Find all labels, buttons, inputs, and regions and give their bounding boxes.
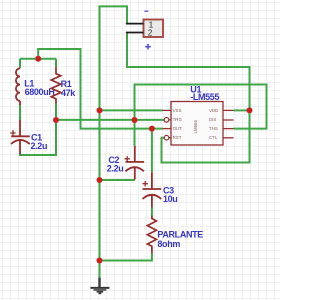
pin stub RST with bubble (164, 135, 171, 140)
resistor PARLANTE (speaker load) (147, 216, 156, 254)
junction R1 bottom (53, 117, 59, 123)
value -LM555 (190, 92, 219, 102)
IC U1 LM555 body (171, 102, 223, 146)
value 10u (163, 194, 177, 204)
value 2.2u (C1) (31, 141, 48, 151)
svg-text:2.2u: 2.2u (31, 141, 48, 151)
svg-text:THS: THS (209, 126, 218, 131)
IC inner label LM555 (vertical) (193, 120, 198, 134)
label U1 (190, 84, 201, 94)
junction OUT / C3 (149, 126, 155, 132)
pin stub VDD (223, 109, 234, 111)
value 6800uH (25, 87, 55, 97)
junction C2 top / TRG (132, 117, 138, 123)
pin name THS (209, 126, 218, 131)
wire connector pin2 to VDD and RST (127, 33, 250, 163)
ground (90, 277, 109, 294)
wire L1 top (19, 59, 21, 69)
wire speaker resistor bottom (100, 254, 152, 261)
svg-text:PARLANTE: PARLANTE (157, 230, 203, 240)
connector J1 (126, 20, 163, 38)
wire top node L1/R1 (20, 58, 56, 60)
svg-text:10u: 10u (163, 194, 177, 204)
svg-text:RST: RST (173, 135, 182, 140)
resistor R1 (51, 67, 60, 104)
wire OUT to C3 (151, 129, 153, 173)
pin name DIS (209, 117, 216, 122)
value 8ohm (157, 239, 180, 249)
polarity minus (145, 10, 149, 12)
pin name CTL (209, 135, 218, 140)
value 2.2u (C2) (107, 164, 124, 174)
svg-text:CTL: CTL (209, 135, 218, 140)
pin stub CTL (223, 137, 234, 139)
svg-text:OUT: OUT (173, 126, 183, 131)
pin stub THS (223, 128, 234, 130)
pin name RST (173, 135, 182, 140)
svg-text:DIS: DIS (209, 117, 216, 122)
wire C2 bottom (100, 179, 135, 181)
svg-text:-LM555: -LM555 (190, 92, 219, 102)
polarity plus (145, 44, 151, 50)
pin name OUT (173, 126, 183, 131)
svg-text:VSS: VSS (173, 108, 182, 113)
pin stub DIS (223, 119, 234, 121)
pin stub TRG with bubble (164, 118, 171, 123)
label PARLANTE (157, 230, 203, 240)
pin stub OUT (163, 128, 172, 130)
value 47k (61, 88, 76, 98)
svg-text:VDD: VDD (209, 108, 218, 113)
label L1 (24, 78, 34, 88)
junction C2 bottom / ground rail (97, 177, 103, 183)
inductor L1 (16, 68, 20, 105)
svg-text:TRG: TRG (173, 117, 183, 122)
pin name VSS (173, 108, 182, 113)
label C3 (163, 185, 174, 195)
svg-text:2: 2 (148, 28, 153, 37)
wire C3 to speaker resistor (151, 208, 153, 216)
label C1 (31, 133, 42, 143)
pin stub VSS (163, 109, 172, 111)
junction node L1/R1 top (35, 56, 41, 62)
label C2 (108, 155, 119, 165)
junction VDD (247, 107, 253, 113)
wire VSS net (100, 109, 163, 111)
capacitor C3 (143, 172, 162, 207)
pin number 2 (148, 28, 153, 37)
label R1 (61, 79, 72, 89)
wire VDD stub (234, 109, 250, 111)
svg-text:LM555: LM555 (193, 120, 198, 134)
junction speaker bottom / ground rail (97, 258, 103, 264)
svg-text:8ohm: 8ohm (157, 239, 180, 249)
pin number 1 (149, 20, 154, 29)
wire node to OUT pin (38, 49, 163, 129)
wire connector pin1 to ground rail (100, 6, 128, 277)
capacitor C2 (125, 146, 145, 180)
svg-text:47k: 47k (61, 88, 76, 98)
capacitor C1 (10, 120, 30, 154)
pin name VDD (209, 108, 218, 113)
wire R1 bottom to C1 bottom (19, 104, 56, 156)
wire L1 bottom to C1 (19, 105, 21, 120)
pin name TRG (173, 117, 183, 122)
wire C2 top to THS (135, 85, 267, 147)
junction VSS rail (97, 107, 103, 113)
wire R1 top (55, 59, 57, 67)
svg-text:2.2u: 2.2u (107, 164, 124, 174)
wire TRG net (56, 119, 164, 121)
